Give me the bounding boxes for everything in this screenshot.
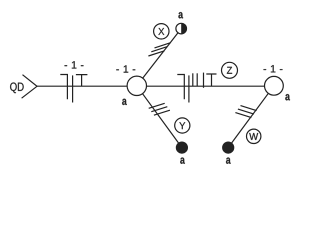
label a middle island [122,99,127,105]
X branch line [137,29,181,86]
junction J1 gate T [76,75,88,87]
lead chevron (QD source) [22,75,37,99]
letter W [249,133,258,140]
label a top anchor [178,12,183,18]
label a right island [285,94,290,100]
slot circle W [247,129,261,143]
Y branch line [137,86,182,148]
junction J1 left arm + bar 1 [60,75,67,100]
label QD [10,83,23,94]
delink ticks on X branch [155,43,171,48]
slot circle Z [222,62,238,78]
W branch line [228,86,274,148]
junction J2 bar 2 [188,75,190,102]
label -1- over middle island [116,65,135,72]
label a bottom left anchor [180,158,185,164]
wire (main horizontal rail) [37,85,266,87]
letter Y [179,122,185,129]
label -1- over J1 [65,61,84,68]
letter Z [227,67,232,74]
junction J2 left arm + bar 1 [177,75,184,100]
filled anchor dot (bottom right) [223,142,234,153]
junction J2 bar 3 [192,73,194,86]
node circle: middle island [127,76,146,95]
junction J1 bar 2 [72,75,74,102]
label a bottom right anchor [226,158,231,164]
filled anchor dot (bottom left) [176,142,187,153]
label -1- over right island [264,65,283,72]
slot circle Y [175,118,190,133]
node circle: right island [265,76,284,95]
slot circle X [154,24,169,39]
junction J2 gate T [206,74,216,86]
letter X [158,28,164,35]
delink ticks on W branch [241,106,257,111]
junction J2 bar 5 [203,73,205,88]
junction J2 bar 4 [196,73,198,86]
half-filled anchor dot (top) [176,23,187,34]
delink ticks on Y branch [149,103,165,108]
